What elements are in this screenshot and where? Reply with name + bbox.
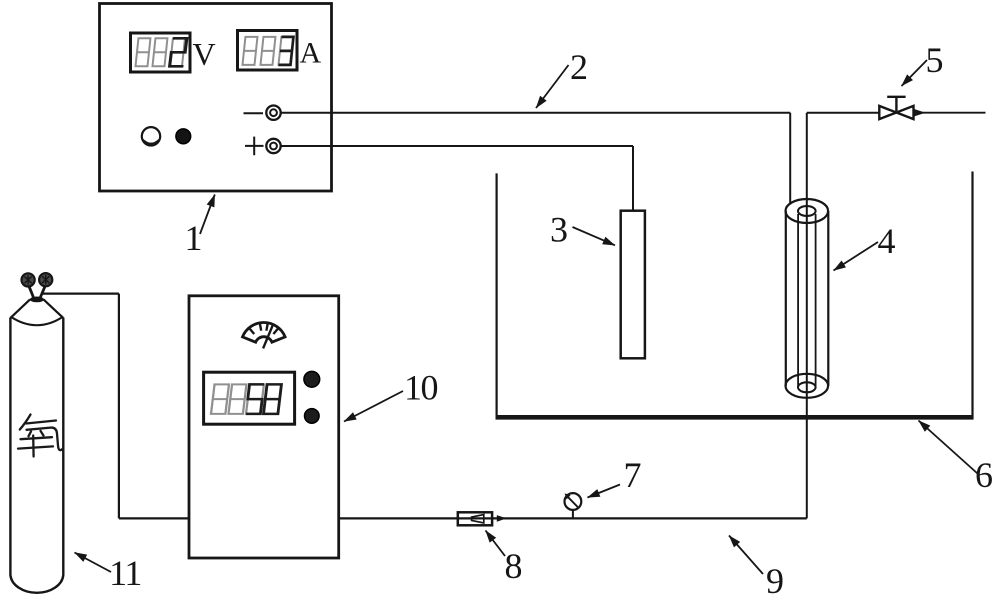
svg-text:2: 2 xyxy=(570,47,588,87)
svg-text:7: 7 xyxy=(624,455,642,495)
svg-text:3: 3 xyxy=(550,210,568,250)
svg-text:8: 8 xyxy=(505,546,523,586)
svg-text:11: 11 xyxy=(109,553,141,593)
svg-text:1: 1 xyxy=(185,218,203,258)
svg-text:10: 10 xyxy=(404,368,438,408)
svg-text:A: A xyxy=(300,37,322,70)
svg-text:6: 6 xyxy=(975,455,993,495)
svg-text:4: 4 xyxy=(878,221,896,261)
svg-text:9: 9 xyxy=(766,561,784,601)
svg-text:5: 5 xyxy=(926,40,944,80)
svg-text:V: V xyxy=(193,36,216,72)
